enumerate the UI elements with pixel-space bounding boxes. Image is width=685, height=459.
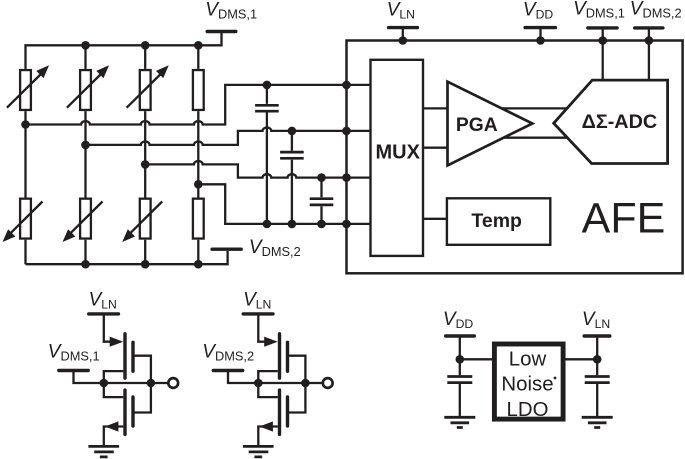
node: column 4 mid [194,180,203,189]
wire: V_LN terminal to AFE box [402,28,404,41]
wire: PGA to ADC ribbon bottom [503,137,567,139]
arrow of variable resistor R3 [127,65,169,108]
transistor Q2 channel bar [123,390,126,434]
capacitor C1 leads [266,85,268,224]
resistor R1 (variable, top row col 1) [20,70,31,110]
wire: V_DD terminal to AFE box [539,28,541,41]
junction: C3 top on sense line 3 [317,173,326,182]
arrow of variable resistor R1 [7,65,49,108]
resistor R5 (variable, bottom row col 1) [20,199,31,239]
capacitor C3 leads [320,178,322,224]
wire: V_LN down to output node [596,336,598,359]
wire: V_DMS,2 terminal into ADC [648,28,650,80]
junction: top rail col 2 [81,41,90,50]
output pin circle (circuit 1) [168,378,178,388]
junction: bottom rail col 3 [141,260,150,269]
svg-text:LDO: LDO [507,399,549,421]
terminal bar V_DMS,1 (bridge top) [207,30,236,33]
ground (LDO output cap) [582,417,613,427]
wire: MUX output to PGA input - [423,147,448,149]
capacitor C5 leads [596,359,598,417]
terminal bar V_DMS,1 (circuit 1 input) [59,369,88,372]
svg-text:Noise: Noise [501,374,553,396]
wire: column 1 vertical segments [24,111,26,264]
terminal bar V_DD (LDO input) [446,334,475,337]
node: circuit 1 mid node [100,379,109,388]
capacitor C5 plates [585,377,610,383]
op-amp PGA [448,82,533,166]
junction: sense line 2 at AFE edge [342,127,351,136]
resistor R3 (variable, top row col 3) [140,70,151,110]
MUX box U1 [371,60,424,256]
wire: sense line 3 from column 3 mid node to MUX [145,161,371,178]
svg-text:VDMS,1: VDMS,1 [573,0,625,20]
stray dot after Noise [554,377,557,380]
junction: sense line 3 at AFE edge [342,173,351,182]
node: LDO input [456,355,465,364]
terminal bar V_LN (LDO output) [584,334,610,337]
transistor Q1 gate bar [131,342,134,371]
junction: top rail col 4 [194,41,203,50]
wire: bottom rail of bridge to V_DMS,2 terminal [26,251,228,264]
transistor Q2 gate bar [131,397,134,426]
wire: V_DD down to input node [459,336,461,359]
junction: V_DD at AFE border [536,36,545,45]
svg-text:VLN: VLN [582,309,610,331]
svg-text:AFE: AFE [582,194,666,242]
wire: V_LN to transistor Q3 drain [258,314,265,342]
wire: output row (circuit 2) [258,382,323,384]
svg-text:VDD: VDD [523,0,553,22]
resistor R4 (fixed, top row col 4) [193,70,204,110]
node: column 3 mid [141,160,150,169]
wire: Q4 gate to output node [288,383,306,413]
capacitor C2 plates [280,152,304,158]
capacitor C1 plates [255,105,279,111]
wire: V_LN to transistor Q1 drain [104,314,111,342]
ground (circuit 1) [88,446,119,457]
node: column 1 mid [21,120,30,129]
svg-text:Low: Low [509,348,547,370]
wire: input node to LDO box [460,358,495,360]
wire: sense line 1 from column 1 mid node to MUX [26,85,372,125]
svg-text:PGA: PGA [456,115,498,136]
junction: V_DMS,2 at AFE border [645,36,654,45]
wire: Q1 gate to output node [133,356,151,383]
resistor R8 (fixed, bottom row col 4) [193,199,204,239]
svg-text:VDMS,1: VDMS,1 [205,0,257,21]
arrow of variable resistor R6 [63,202,103,243]
AFE box [347,41,683,274]
junction: C1 top on sense line 1 [263,81,272,90]
junction: C2 bottom on sense line 4 [288,220,297,229]
capacitor C4 leads [459,359,461,417]
terminal bar V_DMS,2 (AFE top right) [635,26,663,29]
svg-text:VDMS,2: VDMS,2 [630,0,682,20]
terminal bar V_DMS,2 (bridge bottom) [212,247,241,250]
terminal bar V_LN (circuit 1) [89,312,119,315]
arrow into Q1 [110,337,124,347]
wire: column 3 vertical segments [144,45,146,264]
ADC block (delta-sigma) [554,80,668,163]
capacitor C3 plates [310,199,334,205]
wire: V_DMS,1 input to mid node [74,371,104,384]
svg-text:VDMS,2: VDMS,2 [202,341,254,363]
resistor R7 (variable, bottom row col 3) [140,199,151,239]
svg-text:VDMS,1: VDMS,1 [48,341,100,363]
terminal bar V_DD (AFE top) [525,26,555,29]
ground (circuit 2) [243,446,274,457]
terminal bar V_LN (circuit 2) [243,312,273,315]
wire: Q3 source to mid node [258,371,278,383]
wire: V_DMS,1 terminal into ADC [602,28,604,80]
wire: output row [104,382,169,384]
capacitor C2 leads [291,131,293,224]
svg-text:VDD: VDD [443,309,473,331]
node: circuit 1 output node [147,379,156,388]
wire: sense line 2 from column 2 mid node to MUX [86,128,372,145]
transistor Q1 channel bar [123,334,126,378]
arrow out of Q2 [105,421,119,431]
junction: C2 top on sense line 2 [288,127,297,136]
arrow of variable resistor R5 [3,202,43,243]
svg-text:ΔΣ-ADC: ΔΣ-ADC [582,111,658,133]
wire: V_DMS,2 input to mid node [228,371,258,384]
wire: Q2 source to ground [104,427,124,446]
node: circuit 2 mid node [254,379,263,388]
terminal bar V_LN (AFE top) [389,26,418,29]
junction: bottom rail col 2 [81,260,90,269]
wire: PGA to ADC ribbon top [502,107,567,109]
svg-text:MUX: MUX [375,141,420,163]
node: LDO output [593,355,602,364]
wire: Q3 gate to output node [288,356,306,383]
resistor R2 (variable, top row col 2) [80,70,91,110]
wire: Q4 drain to mid node [258,383,278,397]
svg-text:VDMS,2: VDMS,2 [249,237,301,259]
arrow of variable resistor R2 [67,65,109,108]
terminal bar V_DMS,2 (circuit 2 input) [213,369,242,372]
transistor Q3 channel bar [278,334,281,378]
wire: Q2 gate to output node [133,383,151,413]
wire: LDO box to output node [563,358,597,360]
transistor Q3 gate bar [286,342,289,371]
output pin circle (circuit 2) [323,378,333,388]
svg-text:Temp: Temp [471,210,522,232]
transistor Q4 channel bar [278,390,281,434]
wire: Q4 source to ground [258,427,278,446]
junction: V_DMS,1 at AFE border [598,36,607,45]
wire: column 2 vertical segments [84,45,86,264]
arrow of variable resistor R7 [122,202,162,243]
capacitor C4 plates [447,377,472,383]
arrow out of Q4 [259,421,273,431]
wire: column 4 vertical segments [197,45,199,264]
node: circuit 2 output node [301,379,310,388]
svg-text:VLN: VLN [243,289,271,311]
wire: Q1 source to mid node [104,371,124,383]
wire: MUX to Temp sensor [423,218,447,220]
arrow into Q3 [264,337,278,347]
wire: MUX output to PGA input + [423,107,448,109]
junction: top rail col 3 [141,41,150,50]
junction: sense line 4 at AFE edge [342,220,351,229]
resistor R6 (variable, bottom row col 2) [80,199,91,239]
junction: bottom rail col 4 [194,260,203,269]
wire: sense line 4 from column 4 mid node to MUX [198,184,371,224]
terminal bar V_DMS,1 (AFE top right) [588,26,617,29]
junction: sense line 1 at AFE edge [342,81,351,90]
transistor Q4 gate bar [286,397,289,426]
Low Noise LDO box U2 [494,344,563,419]
junction: V_LN at AFE border [399,36,408,45]
svg-text:VLN: VLN [89,289,117,311]
wire: Q2 drain to mid node [104,383,124,397]
svg-text:VLN: VLN [387,0,415,22]
ground (LDO input cap) [444,417,475,427]
junction: C3 bottom on sense line 4 [317,220,326,229]
junction: C1 bottom on sense line 4 [263,220,272,229]
node: column 2 mid [81,141,90,150]
Temp sensor box [447,198,550,245]
wire: top rail of DMS bridge to V_DMS,1 terminal [26,32,222,69]
